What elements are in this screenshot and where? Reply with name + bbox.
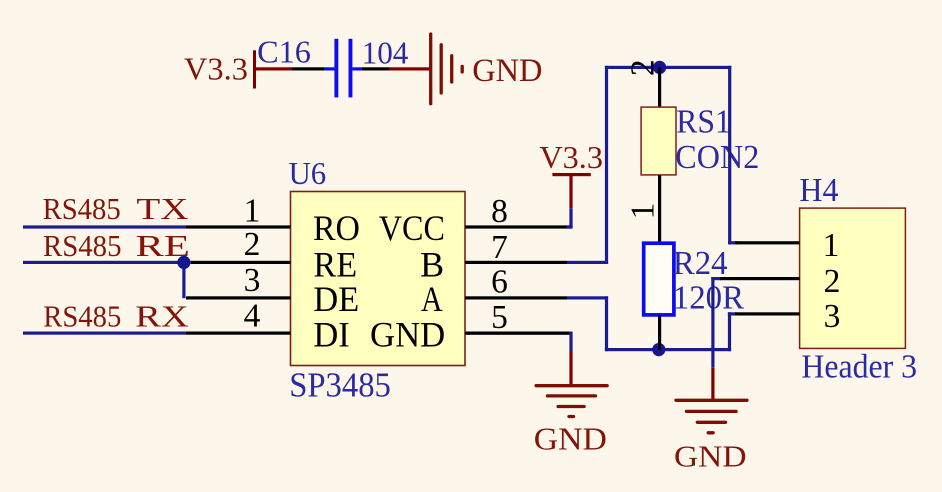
wire pin6 A net: [567, 296, 608, 351]
svg-text:RS485: RS485: [43, 191, 121, 226]
svg-text:3: 3: [824, 298, 841, 335]
svg-text:1: 1: [244, 193, 261, 230]
svg-text:3: 3: [244, 262, 261, 299]
svg-text:SP3485: SP3485: [289, 367, 391, 405]
svg-text:6: 6: [491, 264, 508, 301]
svg-text:U6: U6: [289, 155, 327, 191]
svg-text:4: 4: [244, 297, 261, 334]
pin 3 DE: [186, 262, 359, 319]
svg-text:GND: GND: [674, 439, 747, 473]
svg-text:GND: GND: [472, 53, 542, 89]
junction RE/DE: [177, 256, 190, 269]
svg-text:104: 104: [362, 35, 409, 71]
svg-text:DI: DI: [313, 315, 349, 355]
net label RS485_TX: [43, 191, 189, 226]
svg-text:V3.3: V3.3: [184, 51, 248, 87]
pin 5 GND: [370, 299, 570, 355]
svg-text:5: 5: [491, 299, 508, 336]
wire pin8 to V3.3: [567, 208, 573, 228]
pin 8 VCC: [379, 193, 570, 248]
svg-text:V3.3: V3.3: [539, 139, 603, 175]
svg-text:C16: C16: [257, 34, 311, 70]
svg-text:H4: H4: [799, 172, 838, 209]
svg-text:CON2: CON2: [675, 139, 759, 176]
svg-text:1: 1: [823, 227, 840, 264]
power port V3.3 (top left): [184, 50, 256, 88]
pin 2 of RS1: [658, 67, 661, 107]
svg-text:DE: DE: [313, 279, 359, 319]
header H4 body: [800, 208, 906, 348]
pin 2 RE: [191, 226, 358, 285]
pin 1 RO: [186, 193, 360, 248]
wire C16 to GND: [352, 67, 430, 70]
resistor R24: [644, 243, 745, 316]
wire B net to H4 pin1: [728, 66, 737, 245]
wire RS485_RX: [23, 332, 186, 335]
op-amp U6 body: [291, 192, 466, 366]
wire pin5 to GND: [465, 332, 573, 386]
svg-text:120R: 120R: [673, 279, 745, 316]
pin 3 of H4: [735, 298, 840, 335]
wire bottom A net: [605, 348, 731, 351]
svg-text:GND: GND: [534, 421, 607, 456]
svg-text:2: 2: [625, 59, 662, 76]
svg-text:RO: RO: [313, 208, 360, 248]
svg-text:RS485: RS485: [43, 299, 121, 334]
svg-text:1: 1: [625, 203, 662, 220]
svg-text:GND: GND: [370, 315, 445, 355]
svg-text:A: A: [421, 279, 443, 319]
svg-text:7: 7: [491, 229, 508, 266]
ground (H4 pin 2): [674, 400, 747, 473]
wire RE to DE: [182, 261, 185, 298]
pin 1 of H4: [735, 227, 839, 264]
net label RS485_RE: [43, 228, 190, 263]
wire top B net: [605, 66, 731, 69]
pin 1 of RS1: [658, 175, 661, 243]
svg-text:RX: RX: [135, 299, 189, 334]
capacitor C16: [257, 34, 408, 98]
ground (top, rotated): [431, 34, 543, 104]
svg-text:RS485: RS485: [43, 228, 122, 263]
wire RS485_TX: [23, 225, 186, 228]
pin 2 of H4: [720, 263, 840, 300]
wire R24 bottom lead: [658, 315, 661, 350]
svg-text:RS1: RS1: [676, 103, 731, 140]
pin 7 B: [420, 229, 567, 284]
wire H4 pin2 to GND: [711, 277, 721, 401]
svg-text:TX: TX: [136, 191, 188, 226]
wire pin7 B net: [567, 66, 608, 264]
connector RS1 body: [641, 107, 676, 175]
svg-text:R24: R24: [673, 245, 728, 282]
junction A net / R24: [652, 343, 665, 356]
svg-text:2: 2: [824, 263, 841, 300]
junction B net / RS1: [653, 61, 666, 74]
svg-text:Header 3: Header 3: [801, 348, 917, 385]
wire V3.3 to C16: [255, 67, 335, 70]
svg-text:VCC: VCC: [379, 208, 445, 248]
net label RS485_RX: [43, 299, 189, 334]
pin 4 DI: [186, 297, 350, 354]
wire A net to H4 pin3: [728, 312, 737, 351]
ground (pin 5): [534, 386, 607, 457]
wire RS485_RE: [23, 261, 184, 264]
power port V3.3 (pin 8): [539, 139, 603, 208]
svg-text:2: 2: [244, 226, 261, 263]
pin 6 A: [421, 264, 567, 319]
svg-text:8: 8: [491, 193, 508, 230]
